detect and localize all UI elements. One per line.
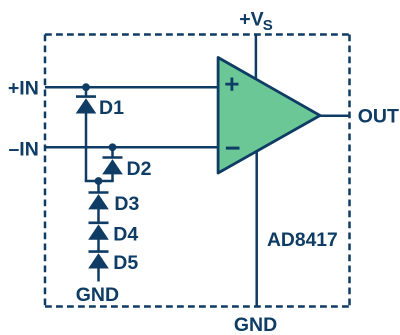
node junction dot on -IN wire bbox=[109, 143, 117, 151]
wire D1 branch vertical bbox=[85, 87, 88, 181]
op-amp plus input marker bbox=[225, 78, 238, 91]
op-amp minus input marker bbox=[226, 147, 240, 150]
wire GND from op-amp to bottom border bbox=[255, 151, 258, 307]
node junction dot at diode chain join bbox=[95, 177, 103, 185]
diode D2 bbox=[102, 158, 123, 175]
svg-text:D4: D4 bbox=[113, 224, 138, 246]
svg-text:OUT: OUT bbox=[358, 106, 399, 128]
svg-text:D5: D5 bbox=[113, 252, 138, 274]
dashed boundary box of AD8417 bbox=[45, 35, 350, 307]
svg-text:–IN: –IN bbox=[8, 138, 38, 160]
diode D3 bbox=[88, 193, 109, 210]
wire D2 branch vertical bbox=[111, 147, 114, 181]
svg-text:D2: D2 bbox=[127, 158, 152, 180]
wire +VS supply bbox=[255, 34, 258, 81]
svg-text:D1: D1 bbox=[99, 97, 124, 119]
diode D5 bbox=[88, 252, 109, 269]
wire -IN input bbox=[45, 146, 220, 149]
diode D4 bbox=[88, 223, 109, 240]
svg-text:GND: GND bbox=[76, 284, 119, 306]
wire D3-D4-D5 chain bbox=[97, 181, 100, 282]
wire OUT output bbox=[320, 115, 350, 118]
wire +IN input bbox=[45, 86, 220, 89]
wire jog joining D1 and D2 branches bbox=[85, 180, 114, 183]
svg-text:D3: D3 bbox=[114, 193, 139, 215]
svg-text:+IN: +IN bbox=[8, 78, 39, 100]
node junction dot on +IN wire bbox=[82, 83, 90, 91]
svg-text:AD8417: AD8417 bbox=[267, 230, 338, 251]
svg-text:GND: GND bbox=[234, 314, 277, 335]
op-amp U1 AD8417 bbox=[218, 58, 320, 174]
diode D1 bbox=[76, 97, 97, 114]
